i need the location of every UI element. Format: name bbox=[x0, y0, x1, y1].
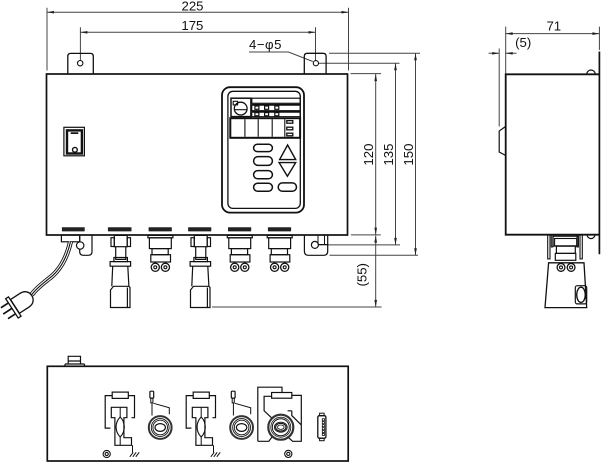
svg-text:(5): (5) bbox=[515, 35, 531, 50]
svg-text:4−φ5: 4−φ5 bbox=[249, 37, 282, 52]
svg-text:135: 135 bbox=[381, 144, 396, 166]
svg-text:(55): (55) bbox=[355, 263, 370, 286]
svg-text:225: 225 bbox=[181, 0, 203, 14]
svg-text:71: 71 bbox=[546, 19, 561, 34]
svg-text:175: 175 bbox=[181, 18, 203, 33]
svg-text:150: 150 bbox=[401, 144, 416, 166]
svg-text:120: 120 bbox=[361, 144, 376, 166]
